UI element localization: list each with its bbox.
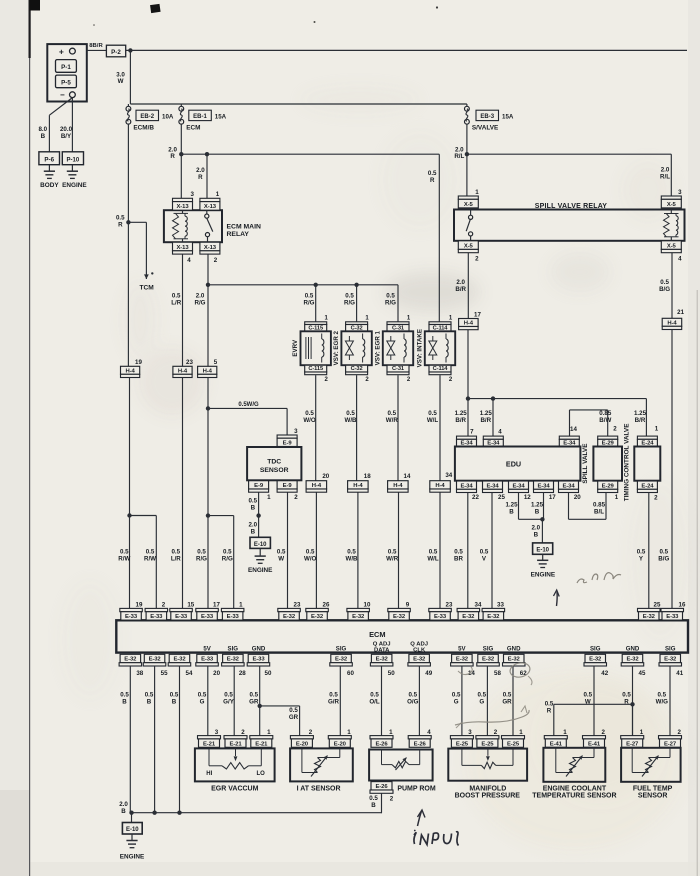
svg-text:H-4: H-4	[464, 321, 474, 327]
svg-text:E-32: E-32	[311, 614, 324, 620]
svg-text:X-13: X-13	[176, 204, 189, 210]
svg-text:23: 23	[186, 359, 193, 366]
svg-text:HI: HI	[206, 771, 212, 777]
wire H-4 20 to E-32 26	[304, 492, 317, 608]
wire branch to E-33 2	[130, 516, 157, 609]
wire node to E-34 7	[455, 399, 468, 437]
svg-text:E-25: E-25	[507, 741, 520, 747]
svg-text:R/G: R/G	[344, 299, 355, 306]
connector E-20 pin 1	[328, 729, 351, 747]
wire E-34 22 to E-32 34	[454, 493, 468, 609]
svg-text:TDC: TDC	[267, 459, 281, 466]
connector C-114 pin 1	[429, 316, 453, 332]
wire ground bus horizontal	[130, 812, 382, 814]
connector E-34 pin 14	[559, 426, 579, 447]
relay ECM MAIN RELAY	[164, 210, 261, 242]
svg-text:15A: 15A	[215, 113, 227, 120]
svg-text:VSV: EGR 1: VSV: EGR 1	[375, 330, 382, 365]
EVRV valve element	[306, 337, 311, 359]
connector H-4 pin 34	[430, 472, 453, 492]
connector E-33 pin 19 (ECM top)	[120, 601, 143, 620]
svg-text:B/Y: B/Y	[61, 133, 72, 140]
svg-text:H-4: H-4	[203, 368, 213, 374]
svg-text:E-25: E-25	[481, 741, 494, 747]
svg-text:20: 20	[213, 670, 220, 677]
svg-text:50: 50	[265, 670, 272, 677]
svg-text:H-4: H-4	[393, 483, 403, 489]
connector E-32 pin 45 (ECM bottom)	[621, 646, 646, 677]
svg-text:E-32: E-32	[487, 614, 500, 620]
connector E-21 pin 3	[198, 729, 221, 747]
node TCM tap	[116, 215, 131, 229]
svg-text:R/L: R/L	[454, 153, 464, 160]
wire E-33 50 down (0.5 GR)	[249, 666, 260, 736]
svg-text:E-33: E-33	[175, 614, 188, 620]
node EDU feed	[466, 396, 470, 400]
svg-text:E-26: E-26	[375, 784, 388, 790]
svg-text:33: 33	[497, 601, 504, 608]
connector E-34 pin 7	[457, 429, 477, 447]
ground ENGINE (EDU)	[531, 554, 556, 578]
connector H-4 pin 21	[662, 309, 684, 330]
svg-text:E-10: E-10	[126, 827, 139, 833]
svg-text:GND: GND	[507, 646, 521, 653]
wire E-33 20 to E-21 3	[198, 666, 208, 736]
svg-text:B: B	[122, 698, 127, 705]
svg-text:O/G: O/G	[407, 698, 419, 705]
connector P-10	[62, 152, 83, 165]
svg-text:42: 42	[601, 670, 608, 677]
svg-text:X-13: X-13	[204, 245, 217, 251]
svg-text:B/R: B/R	[635, 417, 646, 424]
svg-text:4: 4	[427, 729, 431, 736]
svg-text:B: B	[371, 802, 376, 809]
svg-text:ENGINE: ENGINE	[531, 572, 556, 579]
svg-text:R: R	[118, 221, 123, 228]
scan smudges	[60, 86, 690, 850]
svg-text:E-32: E-32	[643, 614, 656, 620]
EVRV coil	[322, 334, 324, 363]
svg-text:X-5: X-5	[464, 243, 474, 249]
connector E-32 pin 23 (ECM top)	[278, 601, 301, 620]
wire H-4 34 to E-33 23	[427, 492, 440, 608]
svg-text:G/R: G/R	[328, 698, 340, 705]
svg-text:E-32: E-32	[227, 657, 240, 663]
node EVRV tap	[303, 283, 317, 322]
svg-text:1: 1	[519, 729, 523, 736]
svg-text:W/O: W/O	[304, 555, 317, 562]
svg-text:R/G: R/G	[222, 555, 233, 562]
connector E-27 pin 2	[659, 729, 682, 747]
svg-text:E-32: E-32	[124, 657, 137, 663]
svg-text:23: 23	[446, 601, 453, 608]
svg-text:B/G: B/G	[658, 555, 669, 562]
svg-text:+: +	[59, 46, 64, 56]
wire fuse bus	[128, 104, 467, 106]
svg-text:R: R	[430, 177, 435, 184]
node TDC feed	[206, 406, 210, 410]
connector X-5 pin 3	[661, 189, 682, 208]
svg-text:19: 19	[135, 359, 142, 366]
wire EB-1 down to X-13 3	[180, 124, 182, 198]
wire y154 horizontal to 0.5R drop	[181, 153, 439, 155]
svg-text:TIMING CONTROL VALVE: TIMING CONTROL VALVE	[623, 423, 630, 501]
node EB-1 at y154	[168, 146, 183, 160]
svg-text:B/G: B/G	[659, 286, 670, 293]
black scan marks	[30, 0, 439, 26]
svg-text:E-32: E-32	[393, 614, 406, 620]
ground ENGINE (main)	[120, 834, 145, 861]
svg-text:E-21: E-21	[229, 741, 242, 747]
svg-text:4: 4	[678, 256, 682, 263]
connector E-32 pin 10 (ECM top)	[347, 601, 371, 620]
svg-text:9: 9	[406, 601, 410, 608]
VSV: EGR 1 coil	[404, 334, 406, 363]
svg-text:34: 34	[475, 601, 482, 608]
svg-text:X-13: X-13	[176, 245, 189, 251]
svg-text:25: 25	[654, 601, 661, 608]
connector H-4 pin 14	[388, 473, 411, 492]
connector E-32 pin 34 (ECM top)	[457, 601, 482, 620]
svg-text:LO: LO	[257, 771, 266, 777]
node EDU ground	[531, 517, 544, 543]
wire branch to E-41 1	[545, 701, 633, 736]
svg-text:B: B	[509, 508, 514, 515]
connector E-32 pin 14 (ECM bottom)	[451, 646, 476, 677]
connector E-33 pin 17 (ECM top)	[196, 601, 221, 620]
connector H-4 pin 17	[459, 311, 482, 329]
wire bus to E-10	[131, 813, 133, 823]
svg-text:25: 25	[498, 494, 505, 501]
svg-text:14: 14	[570, 426, 577, 433]
connector E-32 pin 62 (ECM bottom)	[503, 646, 528, 677]
svg-text:ENGINE: ENGINE	[248, 567, 273, 574]
connector E-34 pin 20	[559, 481, 582, 501]
svg-text:2: 2	[494, 729, 498, 736]
svg-text:1: 1	[267, 494, 271, 501]
svg-text:SIG: SIG	[665, 646, 676, 653]
svg-text:I AT SENSOR: I AT SENSOR	[297, 786, 341, 793]
ground BODY	[40, 165, 59, 189]
wire E-32 55 down (0.5 B)	[145, 666, 155, 813]
svg-text:G: G	[479, 698, 484, 705]
svg-text:R/G: R/G	[303, 299, 314, 306]
svg-text:2: 2	[677, 729, 681, 736]
svg-text:E-34: E-34	[486, 483, 499, 489]
svg-text:1: 1	[389, 729, 393, 736]
svg-text:49: 49	[425, 670, 432, 677]
svg-text:E-20: E-20	[296, 741, 309, 747]
svg-text:E-9: E-9	[283, 483, 293, 489]
connector H-4 pin 5	[198, 359, 218, 377]
svg-text:7: 7	[470, 429, 474, 436]
svg-text:2: 2	[162, 601, 166, 608]
svg-text:E-32: E-32	[589, 657, 602, 663]
wire VSV EGR1 down to H-4 14	[386, 375, 399, 481]
wire branch to TCM	[128, 222, 146, 271]
connector E-29 pin 1	[598, 481, 619, 501]
svg-text:E-32: E-32	[508, 657, 521, 663]
svg-text:1: 1	[563, 729, 567, 736]
svg-text:2: 2	[475, 256, 479, 263]
svg-text:1: 1	[640, 729, 644, 736]
svg-text:2: 2	[241, 729, 245, 736]
svg-text:B: B	[251, 528, 256, 535]
wire X-5 4 to H-4 21	[659, 253, 672, 318]
spill relay switch	[466, 210, 473, 241]
svg-text:41: 41	[676, 670, 683, 677]
wire E-32 50 to E-26 1	[369, 666, 381, 736]
wire H-4 21 to E-33 16	[658, 330, 672, 609]
wire E-32 60 to E-20 1	[328, 666, 340, 736]
wire battery to P-2	[87, 43, 107, 50]
svg-text:B: B	[534, 531, 539, 538]
connector E-34 pin 17	[534, 481, 557, 501]
connector E-25 pin 2	[476, 729, 499, 747]
svg-text:E-32: E-32	[376, 657, 389, 663]
wire X-5 2 to H-4 17	[455, 253, 468, 319]
svg-text:CLK: CLK	[413, 648, 426, 654]
connector C-32 pin 2	[346, 365, 370, 383]
svg-text:ECM MAIN: ECM MAIN	[227, 223, 261, 230]
svg-text:S/VALVE: S/VALVE	[472, 124, 499, 131]
svg-text:H-4: H-4	[178, 368, 188, 374]
pen handwriting INPUT	[414, 830, 459, 846]
svg-text:E-34: E-34	[537, 483, 550, 489]
node ground bus 2	[152, 811, 156, 815]
svg-text:1: 1	[615, 494, 619, 501]
svg-text:2: 2	[294, 494, 298, 501]
connector E-32 pin 58 (ECM bottom)	[477, 646, 502, 677]
svg-text:1: 1	[655, 426, 659, 433]
svg-text:23: 23	[294, 601, 301, 608]
svg-text:R: R	[547, 707, 552, 714]
VSV VSV: EGR 1	[375, 330, 414, 365]
connector E-26 pin 1	[370, 729, 393, 747]
svg-text:E-32: E-32	[626, 657, 639, 663]
connector E-32 pin 28 (ECM bottom)	[222, 646, 247, 677]
svg-text:3: 3	[678, 189, 682, 196]
svg-text:55: 55	[161, 670, 168, 677]
node VSV EGR2 tap	[344, 283, 359, 322]
svg-text:H-4: H-4	[353, 483, 363, 489]
connector X-13 pin 4	[173, 242, 193, 264]
svg-text:3: 3	[215, 729, 219, 736]
svg-text:H-4: H-4	[125, 368, 135, 374]
connector C-32 pin 1	[346, 316, 370, 332]
svg-text:E-32: E-32	[283, 614, 296, 620]
connector E-33 pin 16 (ECM top)	[661, 601, 686, 620]
node ground bus 3	[177, 811, 181, 815]
svg-text:MANIFOLD: MANIFOLD	[469, 785, 506, 792]
box EDU	[455, 447, 581, 481]
svg-text:E-34: E-34	[512, 483, 525, 489]
svg-text:E-33: E-33	[227, 614, 240, 620]
svg-text:E-34: E-34	[460, 483, 473, 489]
wire H-4 23 to E-33 15	[171, 378, 183, 609]
svg-text:E-32: E-32	[664, 657, 677, 663]
svg-text:17: 17	[474, 311, 481, 318]
wire H-4 19 down to split	[129, 378, 131, 516]
node at P-2 output	[128, 48, 132, 52]
connector E-32 pin 42 (ECM bottom)	[584, 646, 609, 677]
svg-text:E-29: E-29	[602, 483, 615, 489]
connector C-115 pin 1	[305, 316, 329, 332]
wire E-32 49 to E-26 4	[407, 666, 419, 736]
svg-text:−: −	[60, 90, 65, 99]
relay coil	[173, 210, 189, 242]
svg-text:RELAY: RELAY	[227, 231, 250, 238]
connector X-5 pin 2	[458, 241, 479, 263]
wire E-32 54 down (0.5 B)	[170, 666, 180, 813]
svg-text:C-31: C-31	[392, 366, 404, 372]
connector P-2	[106, 45, 125, 57]
svg-text:17: 17	[213, 601, 220, 608]
connector E-34 pin 4	[483, 429, 503, 447]
svg-text:C-115: C-115	[308, 366, 323, 372]
svg-text:X-5: X-5	[667, 243, 677, 249]
connector E-33 pin 50 (ECM bottom)	[247, 646, 272, 677]
svg-text:P-2: P-2	[111, 49, 121, 56]
svg-text:E-33: E-33	[201, 614, 214, 620]
svg-text:8B/R: 8B/R	[89, 43, 103, 49]
node GR split	[258, 704, 262, 708]
svg-text:ECM/B: ECM/B	[133, 124, 154, 131]
svg-text:E-32: E-32	[335, 657, 348, 663]
svg-text:SENSOR: SENSOR	[260, 467, 289, 474]
svg-text:R/L: R/L	[660, 173, 670, 180]
svg-text:ECM: ECM	[186, 124, 200, 131]
wire 0.5W/G to TDC E-9 3	[208, 402, 287, 435]
svg-text:R/G: R/G	[385, 299, 396, 306]
svg-text:1: 1	[475, 189, 479, 196]
connector X-13 pin 3	[173, 191, 195, 210]
svg-text:GR: GR	[289, 714, 299, 721]
svg-text:17: 17	[549, 494, 556, 501]
svg-text:E-10: E-10	[254, 542, 267, 548]
svg-text:B: B	[172, 698, 177, 705]
connector E-41 pin 1	[544, 729, 567, 747]
VSV VSV: EGR 2	[333, 330, 372, 365]
svg-text:5: 5	[214, 359, 218, 366]
wire P-2 bus to right edge	[126, 49, 687, 51]
svg-text:E-33: E-33	[150, 614, 163, 620]
connector E-32 pin 55 (ECM bottom)	[143, 654, 168, 677]
svg-text:B: B	[535, 508, 540, 515]
svg-text:0.5W/G: 0.5W/G	[238, 402, 259, 408]
svg-text:15A: 15A	[502, 113, 514, 120]
svg-text:E-32: E-32	[352, 614, 365, 620]
svg-text:E-32: E-32	[173, 657, 186, 663]
svg-text:R: R	[170, 153, 175, 160]
svg-text:1: 1	[216, 191, 220, 198]
svg-text:EB-2: EB-2	[140, 114, 154, 120]
svg-text:R/G: R/G	[196, 555, 207, 562]
svg-text:FUEL TEMP: FUEL TEMP	[633, 785, 673, 792]
svg-text:B/R: B/R	[455, 417, 466, 424]
fuse EB-1 15A ECM	[179, 106, 227, 131]
pencil note 2.5	[577, 573, 621, 583]
wire E-32 41 to E-27 2	[656, 666, 670, 736]
svg-text:E-21: E-21	[203, 741, 216, 747]
connector X-5 pin 4	[661, 241, 682, 263]
svg-text:P-6: P-6	[44, 157, 54, 164]
VSV EVRV	[292, 331, 331, 365]
connector E-27 pin 1	[621, 729, 644, 747]
svg-text:SPILL VALVE: SPILL VALVE	[582, 443, 589, 484]
fuse EB-2 10A ECM/B	[126, 106, 174, 131]
wire E-24 2 to E-32 25	[637, 493, 649, 609]
node EB-3 split	[454, 146, 469, 160]
wire 0.5 R down to C-114	[428, 154, 439, 322]
svg-text:B/R: B/R	[480, 417, 491, 424]
wire E-9 1 to E-10	[248, 492, 260, 537]
svg-text:5V: 5V	[203, 646, 211, 653]
wire battery minus to P-10	[60, 98, 73, 152]
svg-text:10: 10	[364, 601, 371, 608]
svg-text:ENGINE COOLANT: ENGINE COOLANT	[543, 785, 607, 792]
connector C-31 pin 1	[387, 316, 411, 332]
connector X-13 pin 1	[200, 191, 220, 210]
connector E-33 pin 1 (ECM top)	[221, 601, 244, 620]
svg-text:E-32: E-32	[482, 657, 495, 663]
svg-text:28: 28	[239, 670, 246, 677]
connector E-32 pin 49 (ECM bottom)	[408, 641, 433, 677]
svg-text:E-41: E-41	[550, 741, 563, 747]
wire E-32 28 to E-21 2	[223, 666, 235, 736]
wire E-9 2 to E-32 23	[277, 492, 288, 608]
wire H-4 18 to E-32 10	[345, 492, 358, 608]
connector E-24 pin 2	[637, 481, 658, 502]
wire coolant node to E-27 1	[632, 704, 634, 735]
connector E-34 pin 25	[483, 481, 506, 501]
pen arrow up (bottom)	[418, 810, 426, 826]
svg-text:E-32: E-32	[413, 657, 426, 663]
svg-text:P-10: P-10	[67, 158, 80, 164]
wire 2.0 R down to X-13 1	[196, 154, 207, 198]
wire EB-2 down to H-4 19	[127, 124, 129, 366]
svg-text:1: 1	[347, 729, 351, 736]
VSV: EGR 1 valve element	[387, 336, 395, 360]
svg-text:Q ADJ: Q ADJ	[410, 641, 428, 647]
sensor MANIFOLD BOOST PRESSURE	[448, 749, 527, 800]
svg-text:SPILL VALVE RELAY: SPILL VALVE RELAY	[535, 203, 608, 210]
svg-text:E-41: E-41	[588, 741, 601, 747]
wire 3.0 W down to fuse bus	[116, 50, 130, 104]
svg-text:R/W: R/W	[144, 555, 156, 562]
pencil scribble near pin 14	[458, 667, 472, 675]
wire X-13 4 to H-4 23	[171, 254, 182, 366]
ground ENGINE (battery)	[62, 165, 87, 189]
svg-text:EB-1: EB-1	[193, 114, 207, 120]
svg-text:38: 38	[136, 670, 143, 677]
wire E-32 58 to E-25 2	[477, 666, 487, 736]
battery junction block P	[47, 44, 87, 101]
svg-text:E-33: E-33	[125, 614, 138, 620]
VSV VSV: INTAKE	[417, 329, 456, 367]
svg-text:H-4: H-4	[435, 483, 445, 489]
connector E-26 pin 4	[408, 729, 431, 747]
connector E-10 (EDU ground)	[533, 543, 553, 554]
node R/G split	[206, 513, 210, 517]
connector E-32 pin 41 (ECM bottom)	[659, 646, 684, 677]
svg-text:E-24: E-24	[641, 483, 654, 489]
svg-text:4: 4	[498, 429, 502, 436]
svg-text:ECM: ECM	[369, 630, 385, 639]
wire E-32 45 down (0.5 R)	[622, 666, 632, 736]
svg-text:W: W	[118, 78, 124, 85]
svg-text:E-33: E-33	[666, 614, 679, 620]
